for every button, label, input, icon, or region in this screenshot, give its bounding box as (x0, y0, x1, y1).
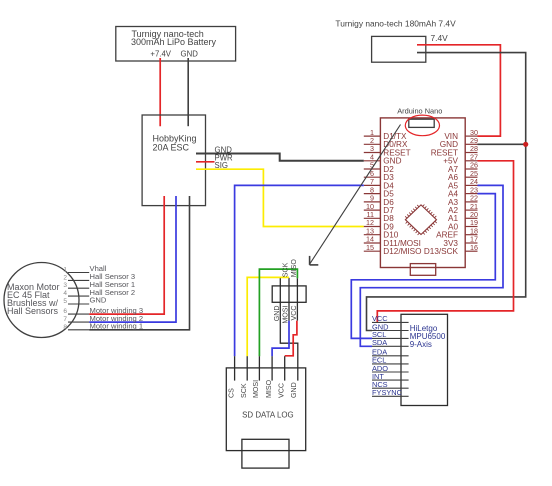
motor pin numbers 1-8 (63, 267, 67, 331)
svg-text:3: 3 (63, 282, 67, 289)
SD pin lines (235, 356, 285, 380)
svg-text:VCC: VCC (290, 306, 298, 321)
wire SD MOSI riser to header pin3 (green) (259, 269, 297, 356)
Arduino left pin labels (383, 132, 421, 256)
ESC U2 HobbyKing 20A (142, 115, 205, 206)
svg-text:2: 2 (63, 274, 67, 281)
svg-text:8: 8 (63, 324, 67, 331)
Arduino right pin numbers (470, 128, 478, 252)
Arduino MCU diamond (405, 205, 437, 235)
svg-text:7.4V: 7.4V (431, 33, 449, 43)
svg-text:VCC: VCC (278, 383, 286, 398)
svg-text:16: 16 (470, 243, 478, 252)
SPI header J1 (272, 286, 306, 302)
svg-text:7: 7 (63, 316, 67, 323)
wire battery +7.4V to ESC (red) (159, 58, 161, 126)
svg-text:+7.4V: +7.4V (150, 49, 171, 58)
Arduino ICSP connector (bottom rect) (410, 264, 435, 276)
svg-text:CS: CS (227, 388, 235, 398)
SD pin labels (vertical) (227, 379, 298, 398)
header bottom labels GND MOSI VCC (vertical) (273, 305, 298, 323)
svg-text:Turnigy nano-tech 180mAh 7.4V: Turnigy nano-tech 180mAh 7.4V (335, 19, 456, 29)
wire Arduino D4 pin7 to SD CS (blue) (235, 185, 364, 356)
motor pin labels (90, 264, 144, 330)
junction dot GND rail (523, 142, 528, 147)
svg-text:9-Axis: 9-Axis (410, 340, 432, 349)
battery B2 Turnigy nano-tech 180mAh 7.4V (372, 36, 426, 62)
MPU pin underlines (372, 322, 409, 396)
svg-text:SDA: SDA (372, 338, 387, 347)
wire battery2 + to Arduino VIN (red) (417, 45, 500, 136)
svg-text:D12/MISO: D12/MISO (383, 247, 421, 256)
svg-text:GND: GND (90, 296, 107, 305)
svg-text:Motor winding 1: Motor winding 1 (90, 322, 144, 331)
Arduino left pin stubs 1-15 (364, 136, 381, 251)
battery B1 Turnigy nano-tech 300mAh LiPo (116, 27, 236, 62)
Arduino USB connector (409, 119, 434, 127)
header pin2 line (SCK/MOSI) (288, 278, 290, 321)
svg-text:20A ESC: 20A ESC (153, 142, 190, 152)
svg-text:5: 5 (63, 298, 67, 305)
svg-text:GND: GND (290, 382, 298, 398)
svg-text:SCK: SCK (240, 383, 248, 398)
MPU title (410, 324, 446, 349)
wire ESC GND to Arduino GND pin4 (dark) (196, 154, 364, 161)
wire Arduino GND pin29 to rail (black) (478, 143, 526, 145)
Arduino left pin numbers (366, 128, 374, 252)
header pin3 line (MISO/VCC) (296, 278, 298, 320)
wire SD SCK riser to header pin2 (yellow) (247, 277, 289, 356)
wire ESC motor winding 2 (blue) (89, 196, 176, 322)
svg-text:D13/SCK: D13/SCK (424, 247, 459, 256)
svg-text:300mAh LiPo Battery: 300mAh LiPo Battery (131, 37, 217, 47)
svg-text:FYSYNC: FYSYNC (372, 388, 403, 397)
svg-text:GND: GND (181, 49, 199, 58)
wire battery GND to ESC (black) (187, 58, 189, 126)
svg-text:MISO: MISO (265, 379, 273, 398)
wire header pin3 to SD VCC (red) (285, 321, 297, 356)
SD card slot rect (242, 439, 289, 468)
svg-text:SD DATA LOG: SD DATA LOG (242, 411, 293, 420)
Arduino right pin labels (424, 132, 459, 256)
red ellipse annotation around USB (405, 115, 439, 136)
wire Arduino A4 pin23 to MPU SCL (blue) (351, 194, 495, 339)
wire ESC SIG to Arduino D9 pin12 (yellow) (196, 169, 364, 226)
wire Arduino A5 pin24 to MPU SDA (blue) (360, 185, 503, 346)
svg-text:MOSI: MOSI (282, 305, 290, 323)
svg-text:MOSI: MOSI (252, 380, 260, 398)
MPU6500 U3 (401, 314, 448, 405)
svg-text:1: 1 (63, 267, 67, 274)
wire Arduino +5V pin27 to MPU VCC (red) (377, 161, 513, 323)
SD data logger U4 (226, 368, 305, 451)
motor pin stubs 1-5 (68, 273, 89, 330)
Arduino right pin stubs 30-16 (465, 136, 477, 251)
motor M1 Maxon EC45 circle (4, 263, 79, 338)
wire battery2 - to GND rail (black) (367, 53, 526, 331)
svg-text:MISO: MISO (290, 259, 298, 278)
wire ESC motor winding 3 (red) (89, 196, 164, 314)
svg-text:4: 4 (63, 290, 67, 297)
svg-text:SCK: SCK (282, 262, 290, 277)
annotation arrow to SPI header (310, 125, 401, 265)
MPU pin labels (372, 314, 403, 397)
svg-text:15: 15 (366, 243, 374, 252)
wire ESC motor winding 1 (black) (89, 196, 189, 330)
svg-text:GND: GND (273, 306, 281, 322)
wire ESC PWR stub (red) (196, 161, 215, 163)
svg-text:Arduino Nano: Arduino Nano (397, 106, 442, 115)
svg-text:Hall Sensors: Hall Sensors (7, 306, 59, 316)
header pin1 line (GND) + route to SD GND (280, 278, 298, 381)
wire header pin2 to SD MISO (blue) (272, 321, 289, 356)
header top labels SCK MISO (vertical) (282, 259, 298, 278)
svg-text:6: 6 (63, 308, 67, 315)
